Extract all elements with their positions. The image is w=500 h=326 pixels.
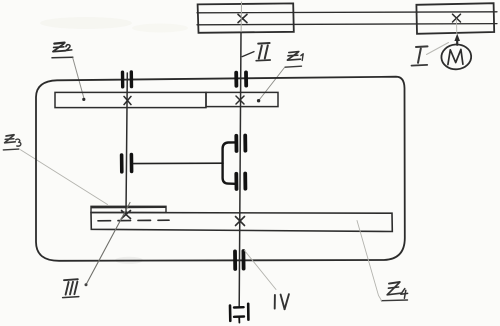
leader line from Z1 to gear: [260, 68, 285, 100]
label Z3 underline: [3, 148, 18, 151]
shaft I axis tick through pulley P2: [456, 19, 458, 34]
label Z2 underline: [52, 56, 73, 59]
label II tick from shaft: [242, 52, 254, 57]
gear Z4 (on shaft IV, bottom long rect): [91, 213, 392, 232]
arrowhead of Z1 leader: [257, 99, 260, 102]
label Z4 underline: [382, 299, 408, 302]
leader line from label I: [427, 43, 449, 55]
faint pencil smudge top-left: [40, 17, 132, 29]
X mark gear Z1: [236, 96, 244, 104]
arrow from motor to pulley P2: [456, 39, 458, 45]
gear Z1 (on shaft II, top row right): [206, 92, 278, 106]
shift rod (horizontal): [134, 162, 224, 164]
label II (roman numeral with over/underline): [258, 43, 269, 59]
bearing on housing top for shaft II: [236, 72, 246, 85]
label I (shaft I roman numeral): [416, 46, 428, 62]
leader line from Z2 to gear: [73, 58, 84, 99]
motor M letter: [448, 49, 463, 64]
bearing on housing top for shaft III: [123, 72, 132, 87]
lower clutch hub on shaft II: [236, 174, 245, 190]
leader line from III to shaft III: [86, 203, 130, 285]
bearing on housing bottom for shaft IV: [235, 251, 244, 269]
shaft II (vertical from pulley P1 down through gearbox): [239, 33, 241, 308]
label III (roman numeral with over/underline): [64, 279, 78, 294]
shaft II axis centerline through pulley P1: [240, 2, 242, 33]
X mark pulley P1: [238, 14, 247, 22]
hidden keyway dashed line in Z4: [98, 219, 169, 222]
leader line from IV to bearing: [245, 251, 277, 290]
arrowhead of Z2 leader: [82, 98, 85, 101]
pulley P1 on shaft I (left): [198, 3, 294, 32]
output coupling at shaft IV end: [230, 304, 248, 323]
shaft I (top horizontal shaft, double line): [197, 12, 497, 25]
upper clutch hub on shaft II: [236, 136, 245, 152]
label Z1 underline: [285, 66, 302, 67]
sliding gear hub on shaft III: [122, 155, 132, 172]
label Z2: [53, 43, 72, 52]
X mark shaft III / pinion: [122, 211, 131, 219]
label IV: [275, 294, 289, 309]
shaft III (vertical, left): [126, 73, 127, 214]
arrow dot of III leader: [85, 283, 88, 286]
X mark gear Z2: [124, 96, 131, 104]
X mark pulley P2: [453, 14, 461, 22]
pulley P2 on shaft I (right, motor side): [416, 3, 494, 34]
leader line from Z4 to gear: [357, 221, 382, 301]
leader line from Z3 to pinion: [21, 150, 108, 205]
X mark gear Z4: [236, 217, 245, 226]
label Z3: [5, 135, 21, 146]
pinion top edge (thick): [92, 206, 166, 208]
gear Z2 (on shaft III, top row left): [55, 92, 206, 107]
motor M circle: [441, 43, 472, 70]
gearbox housing (rounded rectangle): [36, 77, 405, 261]
shift fork bracket on shaft II: [223, 142, 235, 183]
label I underline: [412, 64, 428, 67]
label Z4: [387, 282, 407, 298]
pinion on shaft III (narrow rect above Z4): [91, 206, 166, 212]
paper smudge on housing bottom edge: [115, 257, 143, 264]
label Z1: [287, 52, 303, 61]
